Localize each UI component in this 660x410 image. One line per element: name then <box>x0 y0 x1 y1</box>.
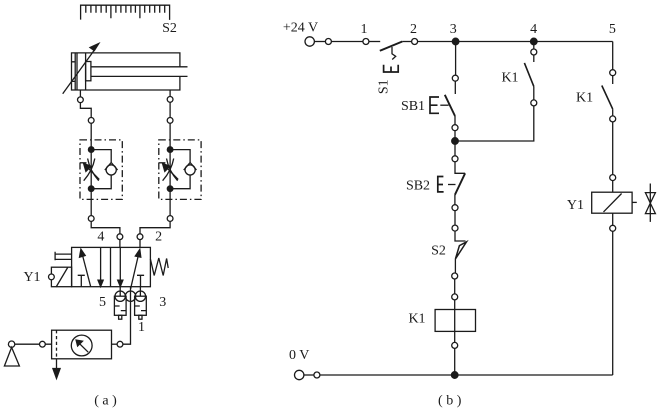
svg-text:SB2: SB2 <box>406 178 430 193</box>
tick from coil <box>632 201 637 203</box>
contact circle <box>452 125 458 131</box>
stub <box>454 81 456 94</box>
wire into throttle box <box>90 123 92 149</box>
stub <box>454 116 456 125</box>
wire down <box>169 102 171 117</box>
SB1 actuator E <box>430 97 439 113</box>
silencer at port 3 <box>135 287 147 319</box>
wire node3 down <box>455 42 457 76</box>
contact circle <box>452 205 458 211</box>
port circle <box>88 118 94 124</box>
svg-text:5: 5 <box>99 295 106 310</box>
svg-text:S2: S2 <box>162 21 177 36</box>
wire <box>454 211 456 225</box>
ruler scale S2 <box>81 5 170 20</box>
wire jog to throttle V1 <box>80 103 91 118</box>
silencer at port 5 <box>114 287 126 319</box>
wire junction down <box>454 141 456 156</box>
wire to 0V rail <box>454 348 456 375</box>
wire down to 0V rail <box>612 231 614 375</box>
svg-text:S1: S1 <box>377 79 392 94</box>
svg-text:( b ): ( b ) <box>438 394 462 409</box>
junction dot on 0V rail <box>451 372 458 379</box>
S1 actuator link <box>392 47 396 60</box>
valve cross-reference symbol <box>645 184 655 222</box>
contact circle <box>452 294 458 300</box>
wire <box>612 213 614 225</box>
pushbutton SB1 blade <box>445 95 455 116</box>
valve left position flows <box>78 247 104 286</box>
svg-text:2: 2 <box>155 229 162 244</box>
svg-text:+24 V: +24 V <box>283 21 318 36</box>
port 1 connection circle <box>125 291 135 301</box>
svg-text:1: 1 <box>138 320 145 335</box>
valve right position flows <box>118 247 144 288</box>
contact circle <box>610 175 616 181</box>
node 1 circle <box>363 39 369 45</box>
self hold wire <box>455 106 534 141</box>
wire <box>612 122 614 175</box>
port circle <box>117 341 123 347</box>
svg-text:K1: K1 <box>576 90 593 105</box>
contact circle <box>610 116 616 122</box>
cylinder C (double-acting, adjustable cushioning) <box>72 53 188 90</box>
cushioning adjust arrow <box>63 44 99 94</box>
wire <box>331 41 363 43</box>
wire service unit to port 1 riser <box>112 343 118 345</box>
5/2 directional valve body <box>72 247 151 286</box>
flow control valve V2 (throttle + check, dash-dot enclosure) <box>159 140 201 200</box>
svg-text:3: 3 <box>159 295 166 310</box>
svg-text:5: 5 <box>609 22 616 37</box>
wire V2 to valve port 2 <box>169 189 171 216</box>
svg-text:3: 3 <box>450 22 457 37</box>
node 3 junction <box>452 38 459 45</box>
manual override <box>55 252 72 261</box>
wire <box>314 41 325 43</box>
0V rail <box>320 374 613 376</box>
svg-text:4: 4 <box>97 229 104 244</box>
svg-text:( a ): ( a ) <box>94 394 117 409</box>
wire into throttle box <box>169 123 171 149</box>
+24V terminal <box>305 37 314 46</box>
node 4 junction <box>531 38 538 45</box>
svg-text:S2: S2 <box>431 244 446 259</box>
stub + SB2 foot <box>455 162 465 174</box>
wire <box>612 181 614 193</box>
wire source to service unit <box>15 343 52 345</box>
port circle <box>167 97 173 103</box>
svg-text:SB1: SB1 <box>401 99 425 114</box>
contact circle <box>452 75 458 81</box>
contact circle <box>452 273 458 279</box>
contact circle <box>610 70 616 76</box>
wire <box>304 374 314 376</box>
wire top rail <box>418 41 613 43</box>
contact circle <box>452 225 458 231</box>
switch S1 blade <box>380 42 403 51</box>
SB2 actuator E <box>438 177 444 192</box>
solenoid Y1 box <box>49 267 72 287</box>
stub <box>612 109 614 116</box>
port circle <box>78 97 84 103</box>
K1 NO contact (node 4 branch) <box>533 42 535 49</box>
wire <box>402 41 411 43</box>
stub <box>454 195 456 205</box>
contact circle <box>610 225 616 231</box>
svg-text:K1: K1 <box>501 70 518 85</box>
svg-text:4: 4 <box>530 22 537 37</box>
service unit with gauge <box>52 330 112 359</box>
wire port 1 stub to valve <box>130 287 132 291</box>
contact circle <box>452 156 458 162</box>
SB2 tick <box>448 184 456 186</box>
wire V1 to valve port 4 <box>90 189 92 216</box>
port circle <box>40 341 46 347</box>
terminal circle <box>325 39 331 45</box>
node 2 circle <box>412 39 418 45</box>
wire cylinder right port <box>169 90 171 97</box>
return spring <box>150 258 168 276</box>
S2 contact (limit) <box>455 231 467 273</box>
SB1 tick <box>440 104 448 106</box>
wire <box>454 279 456 294</box>
K1 NO contact blade (right) <box>602 86 613 110</box>
wire port 1 down to service unit <box>123 291 131 344</box>
S1 actuator E (rotated) <box>384 65 399 72</box>
pushbutton SB2 blade (NC) <box>455 173 465 195</box>
port circle <box>167 118 173 124</box>
terminal circle <box>314 372 320 378</box>
contact circle <box>452 342 458 348</box>
junction dot <box>452 138 459 145</box>
svg-text:2: 2 <box>410 22 417 37</box>
right branch: wire from node5 corner down <box>612 42 614 70</box>
svg-text:Y1: Y1 <box>567 198 584 213</box>
wire to self-hold junction <box>454 131 456 141</box>
svg-text:1: 1 <box>361 22 368 37</box>
wire <box>454 300 456 310</box>
K1 blade <box>524 63 533 87</box>
wire <box>454 331 456 342</box>
drain arrow <box>53 359 60 379</box>
solenoid coil Y1 <box>592 192 632 213</box>
stub <box>612 76 614 84</box>
svg-text:0 V: 0 V <box>289 348 309 363</box>
svg-text:Y1: Y1 <box>23 270 40 285</box>
svg-text:K1: K1 <box>408 312 425 327</box>
relay coil K1 <box>435 310 475 332</box>
wire <box>369 41 380 43</box>
wire cylinder left port <box>79 90 81 97</box>
0V terminal <box>295 370 304 379</box>
flow control valve V1 (throttle + check, dash-dot enclosure) <box>80 140 122 200</box>
air supply source symbol <box>4 341 19 366</box>
